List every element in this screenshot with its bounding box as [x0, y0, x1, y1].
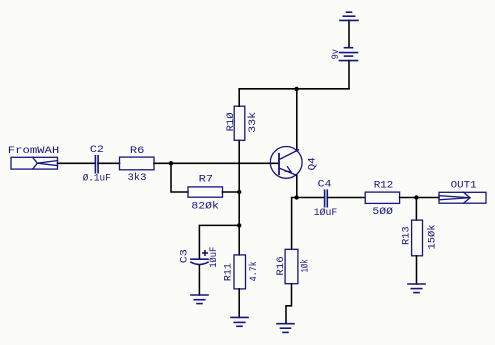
wire FromWAH to C2 — [58, 162, 96, 164]
svg-text:R12: R12 — [374, 181, 394, 192]
svg-text:C3: C3 — [180, 249, 191, 263]
svg-text:R11: R11 — [224, 263, 235, 281]
wire down to R13 — [415, 198, 417, 221]
wire R13 to ground — [416, 256, 418, 284]
wire R12 to OUT1 — [400, 197, 439, 199]
capacitor C2 — [95, 156, 98, 173]
junction base node — [169, 161, 173, 165]
svg-text:R1Ø: R1Ø — [225, 112, 237, 131]
ground R16 — [277, 324, 294, 333]
ground C3 — [191, 295, 208, 304]
wire junction down to R7 — [171, 163, 188, 192]
junction collector rail — [294, 87, 298, 91]
svg-text:1ØuF: 1ØuF — [208, 247, 220, 268]
svg-text:C2: C2 — [90, 145, 104, 156]
svg-text:1ØuF: 1ØuF — [314, 207, 338, 219]
capacitor C4 — [325, 190, 328, 207]
wire C4 to R12 — [327, 197, 365, 199]
svg-text:3k3: 3k3 — [128, 172, 147, 184]
svg-text:OUT1: OUT1 — [451, 181, 477, 192]
ground R11 — [231, 317, 248, 326]
svg-text:C4: C4 — [318, 180, 332, 191]
junction R7 bias — [237, 190, 241, 194]
wire emitter — [296, 176, 298, 198]
svg-text:Ø.1uF: Ø.1uF — [83, 173, 111, 185]
resistor R10 — [234, 106, 245, 140]
wire bias chain vertical — [238, 140, 240, 255]
wire R11 to ground — [238, 289, 240, 318]
svg-text:33k: 33k — [247, 112, 259, 133]
wire battery to rail — [348, 61, 350, 89]
wire R7 to bias node — [223, 191, 240, 193]
transistor Q4 — [270, 147, 302, 179]
junction C3 tap — [237, 223, 241, 227]
resistor R16 — [285, 249, 298, 283]
resistor R7 — [188, 187, 223, 197]
wire emitter to C4 — [297, 197, 325, 199]
svg-text:9v: 9v — [331, 49, 342, 59]
junction output node — [414, 195, 418, 199]
ground above battery — [340, 12, 358, 20]
capacitor C3 polarized — [191, 251, 208, 265]
svg-text:1Øk: 1Øk — [299, 259, 311, 272]
wire emitter to R16 — [292, 198, 297, 250]
svg-text:R16: R16 — [276, 256, 287, 275]
wire R16 to ground — [286, 284, 292, 324]
resistor R12 — [365, 192, 399, 203]
battery 9v — [340, 48, 358, 61]
svg-text:FromWAH: FromWAH — [8, 146, 60, 157]
svg-text:5ØØ: 5ØØ — [372, 206, 393, 218]
svg-text:15Øk: 15Øk — [427, 225, 439, 250]
ground R13 — [408, 284, 425, 293]
wire supply rail — [239, 88, 349, 90]
connector FromWAH — [11, 157, 58, 169]
wire collector — [296, 89, 298, 151]
connector OUT1 — [439, 192, 486, 203]
wire C2 to R6 — [98, 162, 119, 164]
svg-text:R6: R6 — [130, 146, 145, 157]
wire R10 top to rail — [238, 89, 240, 106]
junction emitter — [294, 195, 298, 199]
svg-text:R13: R13 — [401, 226, 412, 245]
wire bias to C3 — [199, 225, 239, 259]
wire R6 to Q4 base — [154, 162, 279, 164]
wire ground to battery — [348, 20, 350, 47]
svg-text:Q4: Q4 — [308, 157, 319, 170]
svg-text:R7: R7 — [199, 175, 214, 186]
resistor R11 — [234, 255, 246, 289]
resistor R13 — [412, 220, 423, 256]
svg-text:4.7k: 4.7k — [248, 261, 260, 281]
resistor R6 — [120, 157, 155, 170]
wire C3 to ground — [198, 266, 200, 295]
svg-text:82Øk: 82Øk — [191, 201, 219, 213]
